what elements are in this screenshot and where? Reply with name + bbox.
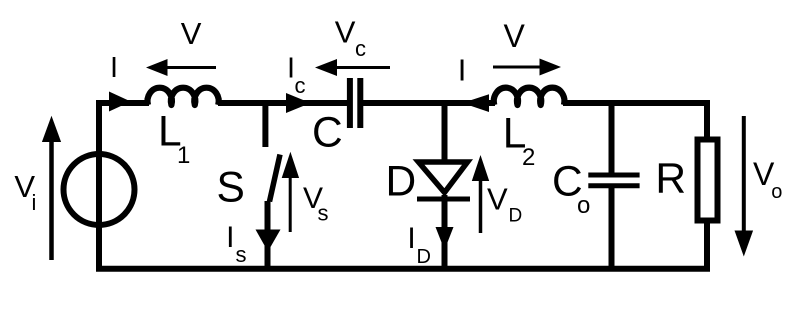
svg-text:I: I	[458, 53, 467, 88]
svg-text:c: c	[355, 36, 366, 61]
source Vi circle	[64, 154, 135, 225]
current arrow Ic	[286, 93, 311, 113]
svg-text:o: o	[771, 181, 782, 203]
voltage arrow Vc	[315, 59, 390, 76]
svg-text:V: V	[181, 16, 202, 51]
capacitor Co wire bottom	[609, 188, 615, 268]
inductor L2	[494, 88, 565, 105]
wire top rail segment 2	[218, 100, 348, 106]
svg-text:V: V	[487, 182, 508, 217]
voltage arrow Vs	[282, 152, 299, 232]
svg-text:1: 1	[177, 142, 190, 169]
current arrow ID head	[436, 227, 454, 250]
voltage arrow V over L2 (right)	[493, 59, 561, 76]
wire bottom rail	[96, 266, 710, 272]
svg-text:I: I	[110, 52, 118, 84]
resistor R wire bottom	[704, 218, 710, 268]
svg-text:D: D	[417, 246, 431, 268]
inductor L1	[148, 88, 219, 105]
voltage arrow Vo	[735, 116, 754, 257]
svg-text:o: o	[577, 192, 590, 219]
current arrow I (L2) pointing left	[462, 94, 489, 112]
svg-text:s: s	[318, 201, 329, 226]
capacitor Co plate top	[588, 173, 639, 178]
diode D wire top	[442, 100, 448, 164]
wire left vertical	[96, 103, 102, 269]
switch S stub wire	[262, 100, 268, 147]
svg-text:D: D	[509, 206, 523, 227]
svg-text:s: s	[236, 242, 247, 267]
switch S lower wire	[265, 201, 271, 268]
current arrow I (input)	[109, 92, 131, 112]
wire top rail segment 1	[96, 100, 149, 106]
capacitor Co plate bottom	[588, 183, 639, 188]
switch S arm	[270, 155, 281, 202]
svg-text:I: I	[407, 222, 415, 255]
capacitor C plate 1	[347, 78, 353, 128]
svg-text:c: c	[295, 73, 306, 98]
capacitor C plate 2	[357, 78, 363, 128]
svg-text:I: I	[226, 221, 234, 254]
diode D cathode bar	[417, 197, 470, 202]
svg-text:D: D	[386, 159, 417, 206]
svg-text:S: S	[217, 164, 245, 211]
voltage arrow VD	[472, 155, 489, 233]
resistor R wire top	[704, 100, 710, 142]
svg-text:R: R	[655, 155, 686, 202]
svg-text:V: V	[504, 18, 526, 54]
resistor R box	[698, 140, 718, 221]
svg-text:C: C	[312, 110, 343, 157]
svg-text:V: V	[335, 15, 356, 50]
capacitor Co wire top	[609, 100, 615, 173]
current arrow Is head	[256, 230, 281, 252]
voltage arrow Vi	[42, 116, 61, 260]
wire top rail segment 4	[563, 100, 710, 106]
diode D triangle	[419, 162, 468, 193]
diode D wire bottom	[442, 195, 448, 268]
svg-text:i: i	[32, 190, 37, 215]
voltage arrow V over L1 (left)	[146, 59, 216, 76]
wire top rail segment 3	[362, 100, 495, 106]
svg-text:2: 2	[522, 144, 535, 171]
